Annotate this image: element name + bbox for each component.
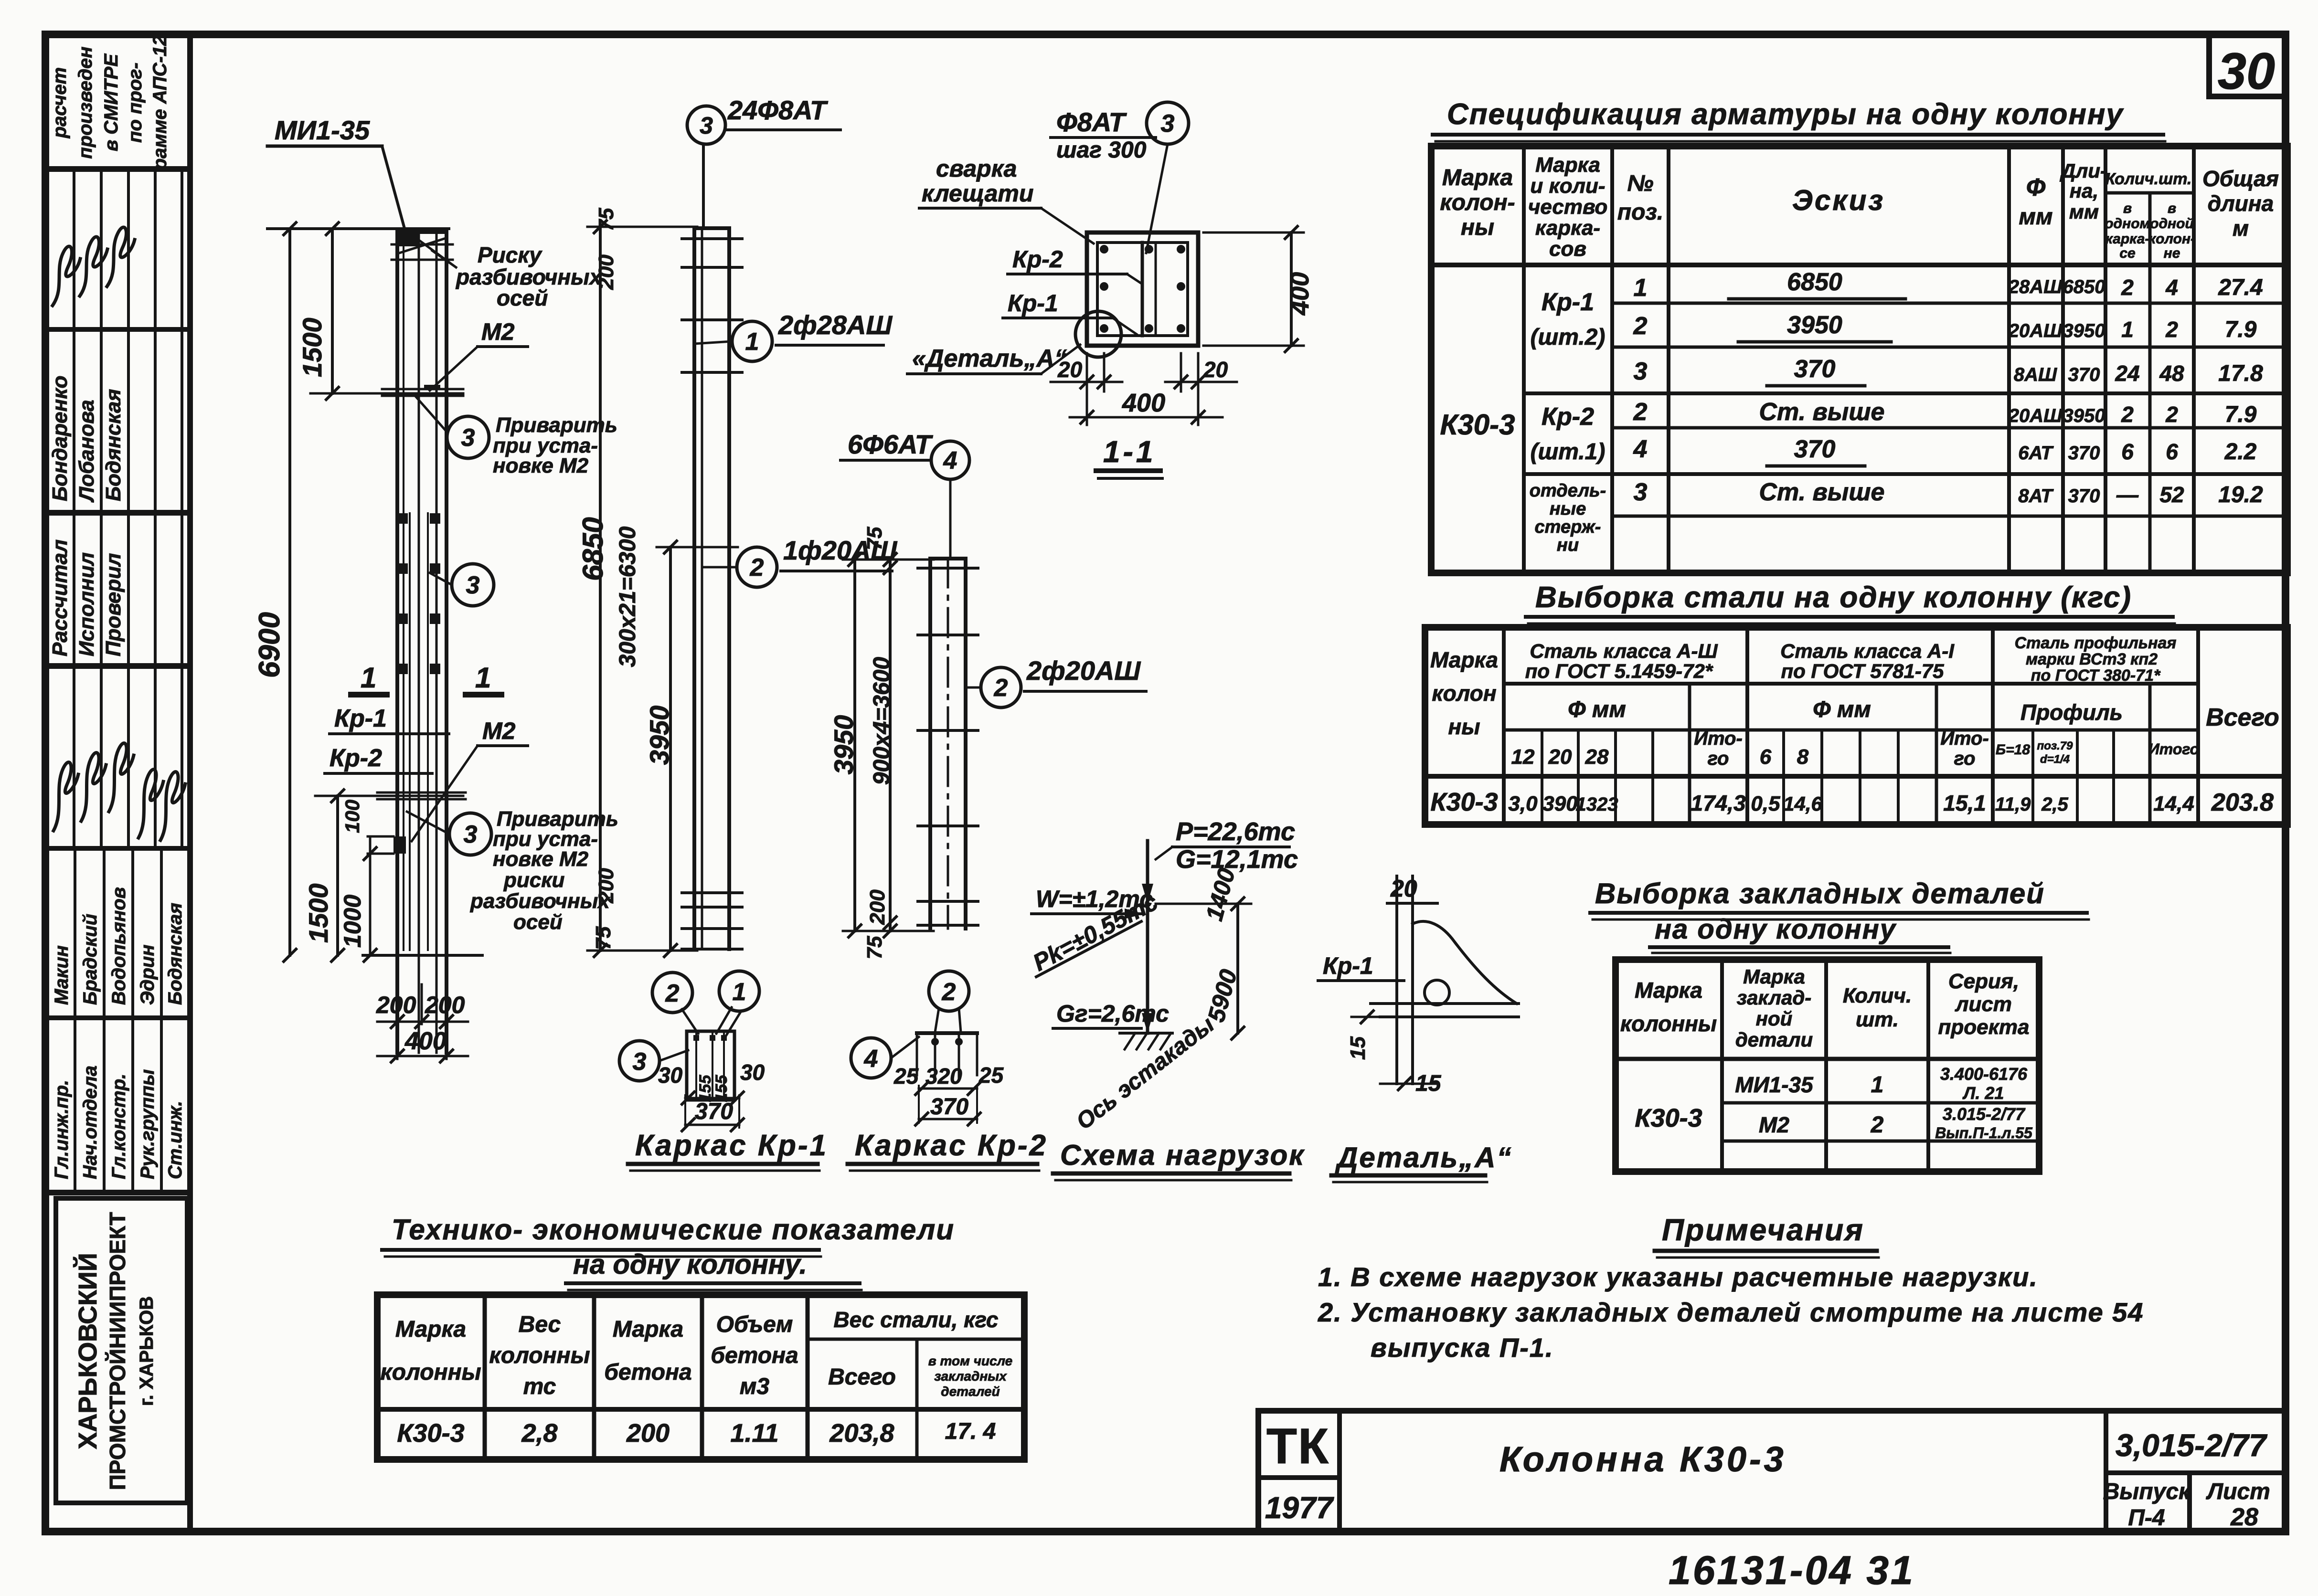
- section dim 400 right: [1290, 233, 1293, 346]
- svg-text:М2: М2: [1759, 1112, 1789, 1137]
- embed table grid: [1616, 960, 2039, 1172]
- svg-text:Серия,: Серия,: [1948, 970, 2019, 993]
- svg-text:«Деталь„А“: «Деталь„А“: [912, 345, 1067, 372]
- svg-text:1500: 1500: [297, 317, 327, 377]
- svg-text:0,5: 0,5: [1751, 792, 1780, 815]
- svg-text:200: 200: [595, 254, 618, 290]
- svg-text:Бодянская: Бодянская: [165, 903, 186, 1005]
- svg-text:Кр-2: Кр-2: [1012, 246, 1063, 273]
- svg-text:К30-3: К30-3: [397, 1419, 464, 1448]
- svg-text:мм: мм: [2019, 204, 2052, 230]
- svg-text:6850: 6850: [1787, 268, 1842, 296]
- svg-text:30: 30: [740, 1060, 765, 1085]
- pos circle 3 label 24Ф8АТ top: [687, 106, 725, 144]
- svg-text:Ф: Ф: [2026, 174, 2046, 201]
- svg-text:карка-: карка-: [1535, 216, 1600, 240]
- svg-text:3950: 3950: [2063, 405, 2105, 426]
- axis dim 5900 1400: [1236, 904, 1239, 1033]
- svg-text:карка-: карка-: [2105, 231, 2150, 247]
- svg-text:4: 4: [943, 447, 957, 475]
- svg-text:закладных: закладных: [934, 1369, 1007, 1384]
- dim 1500 upper: [331, 229, 334, 393]
- svg-text:ХАРЬКОВСКИЙ: ХАРЬКОВСКИЙ: [73, 1253, 102, 1449]
- svg-text:30: 30: [658, 1063, 683, 1088]
- column mid extra verticals (cage overlap): [409, 513, 411, 950]
- svg-text:тс: тс: [523, 1374, 556, 1399]
- svg-text:ные: ные: [1550, 499, 1586, 519]
- svg-text:бетона: бетона: [604, 1360, 691, 1385]
- svg-text:и коли-: и коли-: [1530, 174, 1605, 198]
- svg-text:3,0: 3,0: [1508, 792, 1538, 815]
- svg-text:Вес: Вес: [519, 1312, 561, 1337]
- svg-text:се: се: [2119, 245, 2135, 261]
- svg-text:14,4: 14,4: [2153, 792, 2194, 815]
- svg-text:го: го: [1708, 748, 1729, 769]
- svg-text:отдель-: отдель-: [1530, 481, 1606, 501]
- svg-text:20АШ: 20АШ: [2008, 320, 2063, 341]
- column upper M2 plate level double lines: [382, 388, 463, 391]
- svg-text:370: 370: [2068, 486, 2100, 507]
- svg-text:17. 4: 17. 4: [945, 1419, 996, 1444]
- svg-text:Всего: Всего: [828, 1364, 896, 1390]
- circles 2 and 4 on bottom section Кр-2: [929, 971, 969, 1011]
- detail A column bar: [1395, 876, 1398, 1084]
- svg-text:Марка: Марка: [1535, 153, 1600, 177]
- svg-text:не: не: [2164, 245, 2180, 261]
- svg-text:2: 2: [2165, 317, 2178, 342]
- cage Кр-1 stirrup ticks top: [682, 237, 742, 240]
- svg-text:новке М2: новке М2: [493, 454, 589, 477]
- svg-text:Ф мм: Ф мм: [1568, 697, 1626, 722]
- svg-text:на одну колонну: на одну колонну: [1655, 914, 1897, 945]
- svg-text:колонны: колонны: [489, 1343, 590, 1368]
- svg-text:г. ХАРЬКОВ: г. ХАРЬКОВ: [136, 1296, 157, 1406]
- svg-text:2: 2: [1633, 312, 1648, 340]
- svg-text:Лист: Лист: [2206, 1479, 2270, 1504]
- svg-text:3: 3: [461, 424, 475, 452]
- svg-text:300х21=6300: 300х21=6300: [615, 526, 640, 667]
- svg-text:Выборка закладных деталей: Выборка закладных деталей: [1595, 877, 2045, 909]
- svg-text:Спецификация арматуры на о: Спецификация арматуры на одну колонну: [1447, 98, 2124, 131]
- svg-text:900х4=3600: 900х4=3600: [869, 657, 894, 785]
- circles 2 1 3 on bottom section Кр-1: [652, 972, 692, 1013]
- svg-text:16131-04 31: 16131-04 31: [1669, 1548, 1915, 1593]
- svg-text:К30-3: К30-3: [1635, 1104, 1702, 1132]
- detail A circle on section corner: [1075, 311, 1121, 357]
- svg-text:2: 2: [942, 978, 956, 1006]
- svg-text:деталей: деталей: [941, 1384, 1000, 1399]
- svg-text:1: 1: [2121, 317, 2134, 342]
- svg-text:Проверил: Проверил: [102, 553, 125, 656]
- svg-text:30: 30: [2218, 42, 2275, 100]
- svg-text:8АТ: 8АТ: [2018, 486, 2054, 507]
- svg-text:бетона: бетона: [711, 1343, 798, 1368]
- spec table grid: [1431, 146, 2287, 573]
- steel table grid: [1425, 627, 2287, 824]
- svg-text:1-1: 1-1: [1103, 434, 1156, 469]
- svg-text:Примечания: Примечания: [1662, 1213, 1864, 1247]
- pos circle 2 label 2ф20АШ right: [981, 667, 1021, 708]
- svg-text:М2: М2: [482, 718, 516, 744]
- stamp text ХАРЬКОВСКИЙ ПРОМСТРОЙНИИПРОЕКТ г.Харьков: [73, 1253, 102, 1449]
- svg-text:длина: длина: [2208, 191, 2274, 216]
- svg-text:ной: ной: [1756, 1007, 1793, 1030]
- cage Кр-1 verticals: [692, 228, 696, 949]
- column lower M2 plate: [393, 836, 406, 854]
- svg-text:Деталь„А“: Деталь„А“: [1335, 1142, 1512, 1173]
- svg-text:чество: чество: [1528, 195, 1608, 219]
- svg-text:Бодянская: Бодянская: [102, 389, 125, 501]
- svg-text:3: 3: [1634, 478, 1648, 506]
- svg-text:20: 20: [1390, 875, 1417, 902]
- svg-text:1323: 1323: [1576, 794, 1618, 815]
- svg-text:Вып.П-1.л.55: Вып.П-1.л.55: [1935, 1124, 2033, 1142]
- title block outline: [1258, 1408, 2286, 1414]
- svg-text:2: 2: [994, 674, 1008, 702]
- institute stamp box: [56, 1198, 187, 1503]
- svg-text:370: 370: [2068, 443, 2100, 464]
- svg-text:осей: осей: [497, 285, 548, 310]
- left strip right border: [187, 34, 193, 1532]
- svg-text:6: 6: [1760, 745, 1772, 769]
- svg-text:рамме АПС-12: рамме АПС-12: [149, 35, 170, 171]
- svg-text:4: 4: [1633, 435, 1648, 463]
- svg-text:П-4: П-4: [2128, 1505, 2165, 1531]
- svg-text:клещати: клещати: [922, 180, 1033, 207]
- svg-text:1000: 1000: [339, 895, 366, 948]
- svg-text:20АШ: 20АШ: [2008, 405, 2063, 426]
- svg-text:Общая: Общая: [2202, 166, 2279, 191]
- svg-text:400: 400: [1122, 389, 1165, 417]
- svg-text:поз.: поз.: [1617, 200, 1663, 225]
- svg-text:Макин: Макин: [51, 945, 72, 1005]
- svg-text:3.015-2/77: 3.015-2/77: [1943, 1104, 2026, 1124]
- svg-text:Ст. выше: Ст. выше: [1759, 398, 1885, 426]
- svg-text:одном: одном: [2105, 216, 2150, 232]
- svg-text:Выборка стали на одну: Выборка стали на одну колонну (кгс): [1535, 581, 2132, 614]
- svg-text:Сталь класса А-Ш: Сталь класса А-Ш: [1530, 640, 1718, 662]
- svg-text:Кр-1: Кр-1: [334, 705, 387, 732]
- svg-text:3.400-6176: 3.400-6176: [1940, 1064, 2028, 1084]
- section 1-1 square: [1087, 233, 1198, 346]
- pos circle 2 label 1ф20АШ: [737, 547, 777, 587]
- svg-text:370: 370: [930, 1094, 968, 1120]
- svg-text:8: 8: [1797, 745, 1809, 769]
- svg-text:ПРОМСТРОЙНИИПРОЕКТ: ПРОМСТРОЙНИИПРОЕКТ: [105, 1212, 130, 1490]
- svg-text:по прог-: по прог-: [125, 63, 146, 143]
- svg-text:6: 6: [2166, 439, 2178, 464]
- svg-text:Б=18: Б=18: [1996, 742, 2030, 758]
- svg-text:200: 200: [425, 992, 465, 1018]
- svg-text:1977: 1977: [1265, 1490, 1335, 1525]
- svg-text:колон-: колон-: [1440, 190, 1515, 215]
- svg-text:2. Установку закладных дета: 2. Установку закладных деталей смотрите …: [1318, 1297, 2144, 1327]
- dim 6900 vertical: [288, 229, 291, 955]
- svg-text:3: 3: [464, 821, 478, 848]
- svg-text:Марка: Марка: [1442, 165, 1513, 190]
- riska marks across column top: [392, 243, 453, 246]
- pos circle 3 lower with text: [449, 813, 491, 855]
- svg-text:на,: на,: [2070, 180, 2098, 202]
- svg-text:Ст. выше: Ст. выше: [1759, 478, 1885, 506]
- svg-text:3950: 3950: [644, 706, 674, 765]
- svg-text:6Ф6АТ: 6Ф6АТ: [848, 429, 934, 459]
- svg-text:детали: детали: [1735, 1028, 1813, 1051]
- svg-text:Ито-: Ито-: [1940, 728, 1989, 749]
- svg-text:75: 75: [863, 527, 886, 550]
- svg-text:Кр-1: Кр-1: [1008, 290, 1058, 317]
- svg-text:Рук.группы: Рук.группы: [137, 1069, 158, 1179]
- svg-text:марки ВСт3 кп2: марки ВСт3 кп2: [2026, 650, 2158, 668]
- svg-text:75: 75: [592, 926, 615, 950]
- svg-text:3: 3: [466, 571, 480, 599]
- cage Кр-1 bottom section box: [687, 1031, 734, 1100]
- svg-text:1500: 1500: [303, 883, 333, 943]
- cage Кр-2 dim 3950: [853, 560, 856, 931]
- svg-text:174,3: 174,3: [1691, 791, 1746, 815]
- svg-text:12: 12: [1511, 745, 1535, 769]
- svg-text:шаг 300: шаг 300: [1056, 137, 1147, 163]
- svg-text:го: го: [1954, 748, 1976, 769]
- svg-text:Технико- экономические показа: Технико- экономические показатели: [392, 1214, 955, 1246]
- svg-text:24Ф8АТ: 24Ф8АТ: [727, 95, 829, 125]
- svg-text:колон-: колон-: [2148, 231, 2195, 247]
- strip signatures upper: [53, 246, 80, 306]
- column top embed plate МИ1-35 mark: [399, 234, 419, 246]
- strip names Макин Брадский Водопьянов Эдрин Бодянская: [51, 945, 72, 1005]
- svg-text:мм: мм: [2069, 201, 2099, 223]
- svg-text:3,015-2/77: 3,015-2/77: [2116, 1427, 2268, 1463]
- svg-text:(шт.1): (шт.1): [1531, 439, 1606, 465]
- column base line at 6900: [363, 954, 482, 957]
- svg-text:75: 75: [595, 208, 618, 231]
- cage Кр-2 stirrup ticks: [918, 567, 978, 570]
- svg-text:370: 370: [1794, 435, 1836, 463]
- svg-text:(шт.2): (шт.2): [1531, 325, 1606, 350]
- strip signatures lower: [53, 762, 78, 831]
- svg-text:2: 2: [2121, 402, 2134, 427]
- svg-text:20: 20: [1203, 357, 1228, 382]
- svg-text:ны: ны: [1448, 714, 1480, 739]
- svg-text:20: 20: [1057, 357, 1083, 382]
- svg-text:Лобанова: Лобанова: [75, 400, 98, 503]
- svg-text:400: 400: [404, 1027, 447, 1055]
- cage Кр-1 dim 3950: [669, 547, 672, 951]
- svg-text:Бондаренко: Бондаренко: [48, 376, 72, 501]
- svg-text:2: 2: [1871, 1112, 1884, 1138]
- svg-text:Колич.: Колич.: [1843, 984, 1912, 1007]
- svg-text:шт.: шт.: [1856, 1008, 1899, 1031]
- svg-text:проекта: проекта: [1938, 1015, 2030, 1039]
- svg-text:новке М2: новке М2: [493, 847, 589, 871]
- svg-text:4: 4: [2165, 275, 2178, 300]
- svg-text:2: 2: [1633, 398, 1648, 426]
- left strip column dividers upper sections: [73, 169, 75, 848]
- svg-text:17.8: 17.8: [2218, 361, 2263, 386]
- svg-text:К30-3: К30-3: [1440, 409, 1515, 441]
- svg-text:75: 75: [863, 936, 886, 959]
- svg-text:1: 1: [1634, 274, 1648, 302]
- section 1-1 rebar dots: [1100, 245, 1108, 254]
- tep table grid: [377, 1295, 1024, 1459]
- svg-text:28АШ: 28АШ: [2008, 276, 2063, 297]
- svg-text:риски: риски: [503, 868, 565, 892]
- svg-text:2,5: 2,5: [2041, 794, 2068, 815]
- svg-text:8АШ: 8АШ: [2014, 364, 2057, 385]
- svg-text:Каркас Кр-2: Каркас Кр-2: [855, 1129, 1048, 1162]
- svg-text:Эдрин: Эдрин: [137, 944, 158, 1005]
- svg-text:52: 52: [2159, 482, 2184, 507]
- column inner longitudinal lines: [418, 232, 420, 1053]
- svg-text:Марка: Марка: [1743, 965, 1805, 988]
- svg-text:Итого: Итого: [2148, 740, 2199, 758]
- svg-text:К30-3: К30-3: [1430, 788, 1498, 816]
- svg-text:2,8: 2,8: [521, 1419, 557, 1448]
- svg-text:6АТ: 6АТ: [2018, 443, 2054, 464]
- svg-text:6: 6: [2121, 439, 2134, 464]
- svg-text:по ГОСТ 5.1459-72*: по ГОСТ 5.1459-72*: [1525, 660, 1713, 682]
- svg-text:2.2: 2.2: [2224, 439, 2257, 465]
- strip names Бондаренко Лобанова Бодянская: [48, 376, 72, 501]
- svg-text:Сталь класса А-I: Сталь класса А-I: [1780, 640, 1955, 662]
- cage Кр-2 verticals: [928, 559, 932, 929]
- strip roles Рассчитал Исполнил Проверил: [48, 539, 72, 656]
- page number box 30: [2209, 35, 2286, 96]
- svg-text:200: 200: [866, 889, 889, 925]
- svg-text:15,1: 15,1: [1943, 791, 1986, 815]
- svg-text:P=22,6тс: P=22,6тс: [1176, 817, 1295, 846]
- svg-text:МИ1-35: МИ1-35: [1735, 1072, 1814, 1097]
- column mid joint dark blocks: [397, 513, 408, 524]
- svg-text:расчет: расчет: [49, 67, 70, 139]
- column elevation outline: [395, 232, 399, 1053]
- svg-text:6850: 6850: [2063, 276, 2105, 297]
- svg-text:выпуска П-1.: выпуска П-1.: [1371, 1332, 1554, 1363]
- svg-text:лист: лист: [1955, 993, 2012, 1016]
- svg-text:М2: М2: [481, 318, 515, 345]
- cage Кр-1 dim 6850: [599, 227, 602, 951]
- svg-text:Gг=2,6тс: Gг=2,6тс: [1056, 1000, 1169, 1027]
- svg-text:ТК: ТК: [1266, 1418, 1329, 1474]
- cage Кр-2 dim 900х4=3600: [889, 560, 892, 931]
- svg-text:Кр-1: Кр-1: [1542, 288, 1594, 316]
- svg-text:в: в: [2123, 201, 2132, 216]
- svg-text:Нач.отдела: Нач.отдела: [80, 1066, 101, 1179]
- svg-text:400: 400: [1286, 272, 1314, 316]
- svg-text:203.8: 203.8: [2211, 789, 2274, 816]
- svg-text:200: 200: [626, 1419, 670, 1448]
- svg-text:1: 1: [475, 662, 491, 694]
- svg-text:Эскиз: Эскиз: [1792, 184, 1885, 216]
- svg-text:сварка: сварка: [936, 155, 1017, 182]
- svg-text:осей: осей: [513, 910, 563, 934]
- svg-text:200: 200: [376, 992, 416, 1018]
- svg-text:11,9: 11,9: [1995, 794, 2031, 815]
- svg-text:в: в: [2168, 201, 2176, 216]
- svg-text:Рассчитал: Рассчитал: [48, 539, 72, 656]
- svg-text:200: 200: [595, 868, 618, 904]
- svg-text:Каркас Кр-1: Каркас Кр-1: [635, 1129, 828, 1162]
- svg-text:Исполнил: Исполнил: [75, 552, 98, 656]
- svg-text:Водопьянов: Водопьянов: [108, 887, 129, 1005]
- svg-text:в том числе: в том числе: [928, 1353, 1012, 1368]
- svg-text:3950: 3950: [1787, 311, 1842, 339]
- cage Кр-1 stirrup ticks bottom: [682, 891, 742, 894]
- svg-text:7.9: 7.9: [2225, 402, 2257, 427]
- svg-text:колон: колон: [1432, 681, 1496, 706]
- section dim 400 bottom with 20 20: [1086, 353, 1088, 425]
- left strip section dividers: [45, 166, 190, 172]
- svg-text:19.2: 19.2: [2218, 482, 2263, 507]
- svg-text:4: 4: [864, 1045, 878, 1073]
- svg-text:колонны: колонны: [380, 1360, 481, 1385]
- svg-text:Колич.шт.: Колич.шт.: [2105, 170, 2191, 188]
- svg-text:Сталь профильная: Сталь профильная: [2015, 634, 2177, 652]
- svg-text:2: 2: [2165, 402, 2178, 427]
- svg-text:370: 370: [695, 1099, 733, 1124]
- svg-text:Всего: Всего: [2206, 704, 2279, 731]
- svg-text:3: 3: [1161, 110, 1175, 137]
- svg-text:2: 2: [665, 980, 680, 1007]
- svg-text:Л. 21: Л. 21: [1962, 1083, 2004, 1103]
- svg-text:МИ1-35: МИ1-35: [275, 115, 370, 145]
- svg-text:№: №: [1627, 171, 1653, 196]
- svg-text:1. В схеме нагрузок указаны: 1. В схеме нагрузок указаны расчетные на…: [1318, 1262, 2038, 1292]
- svg-text:м: м: [2233, 216, 2249, 241]
- svg-text:3: 3: [1634, 358, 1648, 385]
- dim 1000 100 lower: [369, 836, 372, 955]
- svg-text:Выпуск: Выпуск: [2103, 1479, 2191, 1504]
- svg-text:6850: 6850: [577, 517, 609, 581]
- svg-text:Гл.констр.: Гл.констр.: [108, 1074, 129, 1179]
- svg-text:100: 100: [341, 800, 363, 833]
- svg-text:м3: м3: [740, 1374, 770, 1399]
- ground hatch: [1120, 1032, 1172, 1035]
- svg-text:3950: 3950: [2063, 320, 2105, 341]
- detail A console plate: [1371, 1002, 1519, 1005]
- svg-text:поз.79: поз.79: [2037, 740, 2073, 752]
- svg-text:Ф8АТ: Ф8АТ: [1056, 107, 1127, 137]
- cage Кр-2 bottom section open box: [917, 1031, 977, 1035]
- svg-text:1: 1: [745, 328, 759, 356]
- svg-text:Ито-: Ито-: [1694, 728, 1743, 749]
- svg-text:Риску: Риску: [478, 243, 542, 267]
- svg-text:d=1/4: d=1/4: [2040, 753, 2070, 766]
- svg-text:Марка: Марка: [395, 1317, 466, 1342]
- svg-text:2ф28АШ: 2ф28АШ: [778, 310, 893, 340]
- svg-text:Колонна К30-3: Колонна К30-3: [1499, 1439, 1786, 1479]
- svg-text:48: 48: [2159, 361, 2184, 386]
- left strip column dividers lower sections: [74, 848, 76, 1193]
- svg-text:25: 25: [893, 1064, 919, 1089]
- svg-text:2: 2: [750, 554, 764, 581]
- svg-text:по ГОСТ 380-71*: по ГОСТ 380-71*: [2031, 666, 2161, 685]
- svg-text:Марка: Марка: [1430, 647, 1498, 672]
- svg-text:24: 24: [2115, 361, 2139, 386]
- svg-text:заклад-: заклад-: [1737, 986, 1812, 1009]
- svg-text:Вес стали, кгс: Вес стали, кгс: [834, 1307, 999, 1332]
- svg-text:по ГОСТ 5781-75: по ГОСТ 5781-75: [1781, 660, 1944, 682]
- svg-text:28: 28: [1585, 745, 1609, 769]
- svg-text:колонны: колонны: [1620, 1011, 1717, 1036]
- svg-text:3: 3: [633, 1048, 647, 1076]
- svg-text:Кр-2: Кр-2: [330, 744, 382, 772]
- svg-text:14,6: 14,6: [1783, 793, 1822, 815]
- svg-text:390: 390: [1542, 792, 1578, 815]
- svg-text:7.9: 7.9: [2225, 317, 2257, 342]
- svg-text:2: 2: [2121, 275, 2134, 300]
- svg-text:Ст.инж.: Ст.инж.: [165, 1101, 186, 1179]
